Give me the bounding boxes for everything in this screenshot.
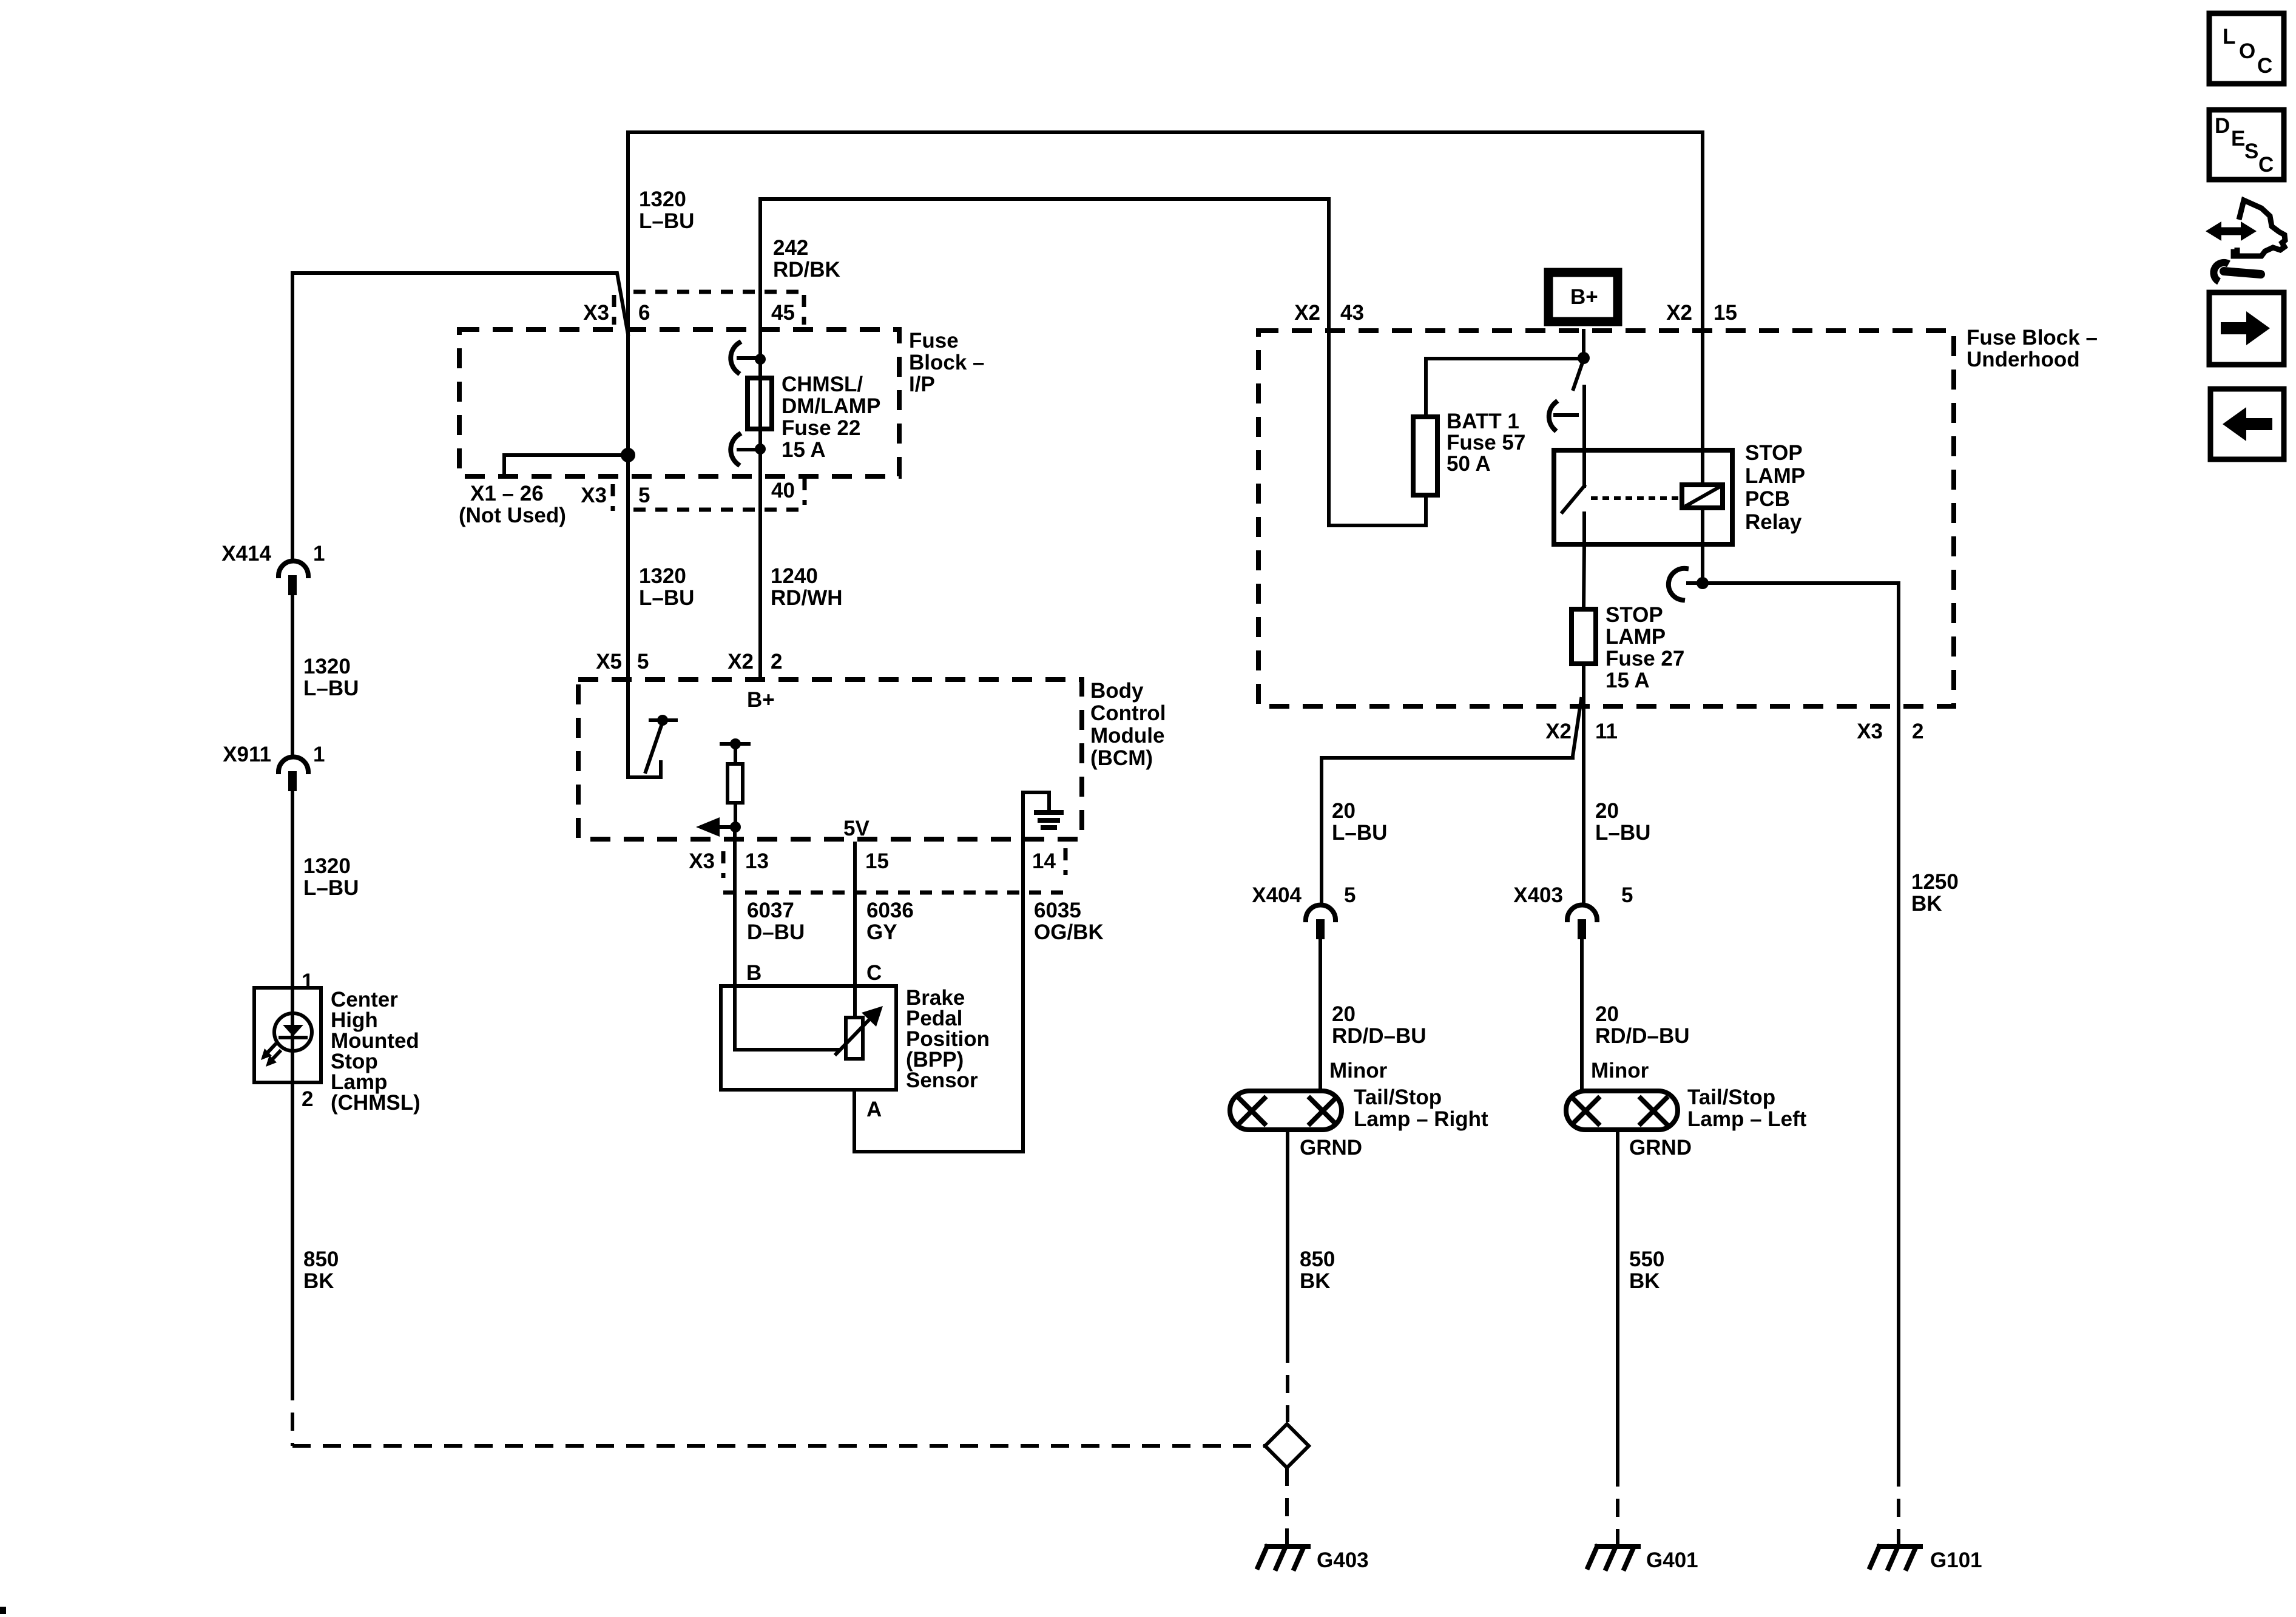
wire: 20 RD/D-BU to left lamp: [1580, 939, 1584, 1091]
svg-text:1320L–BU: 1320L–BU: [639, 564, 694, 610]
svg-text:X5: X5: [596, 650, 622, 673]
wire: branch to X404: [1322, 699, 1581, 904]
svg-text:5: 5: [638, 484, 650, 507]
svg-text:Minor: Minor: [1329, 1059, 1388, 1082]
relay coil: [1682, 485, 1723, 508]
svg-text:5: 5: [1344, 883, 1356, 907]
svg-text:C: C: [866, 961, 882, 985]
svg-text:2: 2: [771, 650, 782, 673]
BCM pin row dotted line: [723, 891, 1065, 895]
terminal: B+ lead connector: [1573, 359, 1584, 389]
svg-text:B+: B+: [1570, 285, 1598, 309]
svg-text:45: 45: [771, 301, 795, 325]
svg-text:D: D: [2215, 114, 2230, 138]
svg-text:2: 2: [1912, 720, 1923, 743]
wire: relay coil feed from B+ rail: [1701, 132, 1704, 450]
svg-text:X3: X3: [689, 849, 715, 873]
svg-text:X3: X3: [583, 301, 609, 325]
svg-text:C: C: [2257, 54, 2272, 78]
Body Control Module dashed box: [578, 680, 1082, 839]
svg-text:1: 1: [313, 743, 325, 766]
svg-text:X2: X2: [1545, 720, 1572, 743]
fuse F22 CHMSL/DM/LAMP terminals: [755, 354, 766, 365]
connector X911: [279, 757, 308, 772]
wire: CHMSL branch horizontal with jog into pin X3-6: [292, 273, 628, 334]
junction dot X1-26 tap: [621, 448, 635, 462]
BCM output arrow to pin 13: [730, 822, 741, 832]
wire: 850 BK below CHMSL solid: [291, 1082, 294, 1382]
svg-text:15: 15: [865, 849, 889, 873]
svg-text:850BK: 850BK: [1300, 1247, 1335, 1293]
wire: 1320 L-BU between X414 and X911: [291, 595, 294, 756]
wire: relay output to STOP LAMP fuse 27: [1584, 544, 1584, 609]
wire: relay coil to ground rail: [1701, 508, 1704, 583]
svg-text:E: E: [2231, 127, 2245, 150]
Fuse Block I/P dashed box: [459, 329, 899, 476]
wire: X2-43 branch to fuse 57: [1329, 199, 1426, 525]
svg-text:1320L–BU: 1320L–BU: [639, 187, 694, 233]
svg-text:43: 43: [1340, 301, 1364, 325]
svg-text:G403: G403: [1317, 1548, 1369, 1572]
svg-text:B+: B+: [747, 688, 775, 712]
svg-text:X3: X3: [581, 484, 607, 507]
svg-text:5V: 5V: [843, 817, 869, 840]
svg-text:X3: X3: [1857, 720, 1883, 743]
svg-text:5: 5: [637, 650, 649, 673]
relay actuation dashed link: [1591, 496, 1680, 500]
lamp: Tail/Stop Lamp Right: [1230, 1091, 1342, 1130]
wire: second horizontal 242 RD/BK feed: [760, 197, 1329, 201]
wire: 6035 OG/BK pin 14 to BPP A: [854, 839, 1023, 1152]
wire: 20 RD/D-BU to right lamp: [1319, 939, 1322, 1091]
wire: left vertical 1320 L-BU into fuse block and BCM: [626, 132, 630, 777]
ground G401: [1588, 1547, 1638, 1568]
BPP sensor box: [721, 986, 896, 1090]
B+ terminal box: [1548, 272, 1618, 322]
connector X403: [1567, 905, 1597, 920]
svg-text:1320L–BU: 1320L–BU: [303, 655, 359, 700]
svg-text:X403: X403: [1513, 883, 1563, 907]
connector X404: [1306, 905, 1335, 920]
wire: 1250 BK across and down: [1703, 583, 1899, 1468]
page artifact mark bottom-left: [0, 1607, 6, 1614]
svg-text:1: 1: [302, 970, 313, 993]
svg-text:11: 11: [1595, 720, 1618, 743]
icon: DESC box: [2209, 110, 2284, 180]
connector row X3 6/45 dotted line top: [633, 290, 804, 294]
wire: 6037 D-BU pin 13 to BPP B: [733, 827, 737, 986]
BPP potentiometer element: [846, 1018, 863, 1059]
svg-text:15: 15: [1714, 301, 1737, 325]
svg-text:6: 6: [638, 301, 650, 325]
Fuse Block Underhood dashed box: [1258, 331, 1954, 706]
wire: BCM switch hook bracket: [628, 762, 661, 777]
BPP wiper arrow: [836, 1018, 871, 1054]
svg-text:A: A: [866, 1098, 882, 1121]
wire: fuse 27 output through pin X2-11: [1582, 664, 1585, 904]
svg-text:1: 1: [313, 542, 325, 565]
wire: 850 BK dashed to splice: [291, 1382, 294, 1446]
BPP internal wiper feed: [735, 986, 839, 1050]
wire: into relay switch: [1582, 387, 1586, 450]
relay switch: [1582, 450, 1586, 486]
svg-text:G401: G401: [1646, 1548, 1698, 1572]
svg-text:X2: X2: [728, 650, 754, 673]
wire: 6036 GY 5V pin 15 to BPP C: [853, 843, 857, 1018]
svg-text:O: O: [2239, 39, 2255, 63]
svg-text:550BK: 550BK: [1629, 1247, 1664, 1293]
icon: LOC box: [2209, 13, 2284, 84]
svg-text:X2: X2: [1666, 301, 1692, 325]
svg-text:G101: G101: [1930, 1548, 1982, 1572]
svg-text:B: B: [746, 961, 761, 985]
svg-text:X911: X911: [223, 743, 271, 766]
icon: forward arrow box: [2209, 292, 2284, 365]
ground G403: [1258, 1547, 1308, 1568]
LED symbol: [274, 1013, 312, 1051]
wire: CHMSL vertical 1320 L-BU upper: [291, 273, 294, 561]
svg-text:13: 13: [745, 849, 769, 873]
fuse F22 body: [748, 378, 772, 429]
wire: dashed ground run to splice diamond: [292, 1444, 1265, 1448]
svg-text:2: 2: [302, 1087, 313, 1111]
svg-text:X404: X404: [1252, 883, 1302, 907]
wire: right lamp ground 850 BK: [1286, 1130, 1289, 1345]
svg-text:5: 5: [1621, 883, 1633, 907]
node: splice diamond: [1265, 1424, 1309, 1468]
BCM internal switch: [650, 718, 676, 722]
LED light arrows: [265, 1045, 275, 1056]
svg-text:850BK: 850BK: [303, 1247, 339, 1293]
svg-text:L: L: [2223, 25, 2235, 49]
BCM internal resistor: [721, 742, 749, 746]
icon: car with double arrow and wrench: [2206, 200, 2285, 282]
svg-text:X414: X414: [221, 542, 271, 565]
svg-text:X2: X2: [1294, 301, 1320, 325]
BCM internal ground: [1023, 792, 1049, 839]
connector X414: [279, 561, 308, 576]
wire: left lamp ground 550 BK: [1616, 1130, 1619, 1468]
wire: 1250 BK dashed to ground: [1897, 1468, 1900, 1545]
svg-text:STOPLAMPPCBRelay: STOPLAMPPCBRelay: [1745, 441, 1805, 534]
wire: feed to BATT 1 fuse: [1426, 359, 1584, 417]
svg-text:S: S: [2244, 140, 2258, 163]
wire: through CHMSL lamp: [291, 988, 294, 1082]
ground G101: [1870, 1547, 1920, 1568]
wire: X1-26 (Not Used) stub: [504, 455, 628, 476]
svg-text:GRND: GRND: [1300, 1136, 1362, 1160]
fuse F27 STOP LAMP body: [1572, 609, 1596, 664]
wire: 1320 L-BU into CHMSL lamp: [291, 791, 294, 988]
terminal: coil ground connector: [1688, 581, 1703, 585]
fuse F57 BATT 1 body: [1413, 417, 1437, 495]
svg-text:Fuse Block –Underhood: Fuse Block –Underhood: [1967, 326, 2098, 371]
wire: top horizontal 1320 L-BU feed: [628, 130, 1703, 134]
connector row X3 5/40 dotted line bottom: [633, 508, 804, 512]
lamp: CHMSL box: [254, 988, 321, 1082]
svg-text:C: C: [2258, 153, 2274, 177]
svg-text:Minor: Minor: [1591, 1059, 1649, 1082]
svg-text:14: 14: [1032, 849, 1056, 873]
wire: B+ lead into fuse block: [1582, 331, 1585, 359]
svg-text:GRND: GRND: [1629, 1136, 1692, 1160]
svg-text:1320L–BU: 1320L–BU: [303, 854, 359, 900]
lamp: Tail/Stop Lamp Left: [1566, 1091, 1678, 1130]
relay: STOP LAMP PCB Relay box: [1554, 450, 1732, 544]
svg-text:40: 40: [771, 479, 795, 502]
icon: back arrow box: [2210, 389, 2284, 459]
wire: 242 RD/BK / 1240 RD/WH vertical through Fuse 22 to BCM: [758, 199, 762, 680]
